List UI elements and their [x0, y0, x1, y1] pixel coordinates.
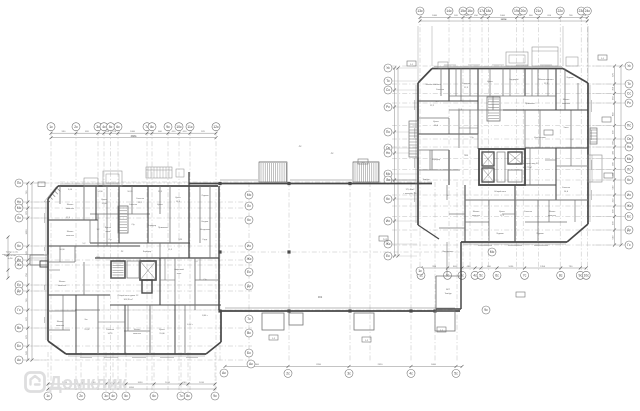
- svg-text:24150: 24150: [501, 19, 508, 21]
- svg-text:8с: 8с: [150, 125, 154, 129]
- svg-text:14,11: 14,11: [107, 333, 113, 335]
- grid: left building vertical axis dashed lines: [51, 131, 216, 390]
- left building window sill lines (outer thin): [46, 184, 205, 356]
- svg-text:1080: 1080: [130, 131, 136, 133]
- svg-text:11с: 11с: [187, 125, 193, 129]
- svg-text:Кухня: Кухня: [487, 81, 493, 83]
- svg-text:Ас: Ас: [17, 358, 21, 362]
- svg-text:С/у: С/у: [109, 239, 112, 241]
- svg-text:Спальня: Спальня: [436, 89, 444, 91]
- connector vent shafts below bottom wall: [262, 311, 455, 331]
- svg-text:9с: 9с: [166, 125, 170, 129]
- svg-text:Лс: Лс: [17, 216, 21, 220]
- svg-text:19с: 19с: [514, 9, 520, 13]
- room labels right building: [403, 77, 574, 295]
- svg-text:2с: 2с: [286, 372, 290, 376]
- svg-text:Пс: Пс: [386, 130, 390, 134]
- left building interior walls: [48, 172, 221, 354]
- dimension column: right of right building: [613, 65, 623, 247]
- svg-text:8с: 8с: [559, 273, 563, 277]
- svg-text:Жс: Жс: [17, 263, 22, 267]
- svg-text:12с: 12с: [213, 125, 219, 129]
- left building top-left ramp hatch: [44, 187, 60, 202]
- right building external stair at right: [590, 128, 597, 144]
- svg-text:Гард.: Гард.: [203, 239, 208, 241]
- right building outer wall: [418, 69, 588, 310]
- svg-text:3с: 3с: [96, 125, 100, 129]
- svg-text:Ус: Ус: [386, 66, 390, 70]
- svg-text:3с: 3с: [347, 372, 351, 376]
- svg-text:Гс: Гс: [627, 243, 631, 247]
- svg-text:Прихожая: Прихожая: [158, 227, 168, 229]
- svg-text:Спальня: Спальня: [106, 329, 114, 331]
- grid: right building horizontal axis dashed lines: [392, 66, 624, 245]
- svg-text:Дс: Дс: [17, 289, 21, 293]
- svg-text:Бс: Бс: [247, 351, 251, 355]
- svg-text:Жилая комната: Жилая комната: [425, 84, 441, 86]
- svg-text:5с: 5с: [124, 394, 128, 398]
- right building outer sill lines: [416, 67, 590, 245]
- svg-text:Мс: Мс: [490, 250, 495, 254]
- grid: left building horizontal axis dashed lines: [24, 183, 252, 360]
- svg-text:Нс: Нс: [17, 200, 21, 204]
- svg-text:Тс: Тс: [386, 79, 390, 83]
- svg-text:Тамбур: Тамбур: [444, 293, 452, 295]
- connector top wall: [189, 180, 432, 184]
- svg-text:4с: 4с: [111, 394, 115, 398]
- room labels left building: [56, 189, 210, 335]
- svg-text:Жс: Жс: [627, 204, 632, 208]
- svg-text:Кухня: Кухня: [101, 199, 106, 201]
- svg-text:6,98 г: 6,98 г: [187, 324, 193, 326]
- svg-text:Кухня: Кухня: [157, 204, 163, 206]
- dimension row: top of left building: [50, 131, 218, 139]
- svg-text:6с: 6с: [116, 125, 120, 129]
- connector stair block A on top edge: [259, 162, 287, 182]
- svg-text:Жилая: Жилая: [134, 329, 141, 331]
- svg-text:Ас: Ас: [249, 362, 253, 366]
- axis bubble: free Ас lower: [247, 360, 255, 368]
- svg-text:холл: холл: [177, 273, 182, 275]
- axis bubbles: row below right building: [417, 271, 590, 279]
- svg-text:1с: 1с: [46, 394, 50, 398]
- svg-text:Лоджия: Лоджия: [496, 233, 503, 235]
- right building elevator/stair core: [479, 149, 525, 185]
- svg-text:Жилая: Жилая: [67, 204, 74, 206]
- left building window marks: [45, 213, 199, 358]
- svg-text:Кухня: Кухня: [159, 329, 165, 331]
- svg-text:1350: 1350: [540, 266, 546, 268]
- svg-text:Лс: Лс: [627, 168, 631, 172]
- svg-text:8,66 г: 8,66 г: [202, 315, 208, 317]
- svg-text:с авакуац. ПБ: с авакуац. ПБ: [403, 193, 417, 195]
- svg-text:Жилая: Жилая: [67, 231, 74, 233]
- svg-text:15,06: 15,06: [159, 333, 165, 335]
- svg-text:16с: 16с: [467, 9, 473, 13]
- svg-text:Домклик: Домклик: [49, 373, 128, 393]
- svg-text:2320: 2320: [378, 364, 384, 366]
- dimension column: left of right building: [393, 67, 400, 258]
- svg-text:Общий холл дома 1С: Общий холл дома 1С: [118, 294, 139, 297]
- svg-text:Тамбур на отм.: Тамбур на отм.: [6, 252, 19, 254]
- svg-text:2кк: 2кк: [85, 319, 88, 321]
- svg-text:Тс: Тс: [627, 82, 631, 86]
- connector stair block B on top edge: [353, 162, 379, 182]
- svg-text:Кухня стол-приг. мод 3С: Кухня стол-приг. мод 3С: [515, 163, 539, 165]
- svg-text:1050: 1050: [26, 229, 28, 235]
- svg-text:109,35 м²: 109,35 м²: [123, 298, 132, 301]
- svg-text:20850: 20850: [130, 136, 137, 138]
- svg-text:2с: 2с: [446, 273, 450, 277]
- svg-text:20с: 20с: [520, 9, 526, 13]
- svg-text:Жилая: Жилая: [59, 281, 66, 283]
- svg-text:Тамбур на отм.: Тамбур на отм.: [4, 255, 17, 257]
- svg-text:13с: 13с: [417, 9, 423, 13]
- axis bubbles: right column of right building: [592, 62, 633, 249]
- svg-text:Дс: Дс: [627, 228, 631, 232]
- axis bubbles: left column of left building: [15, 179, 46, 364]
- svg-text:12,06: 12,06: [101, 203, 107, 205]
- svg-text:9с: 9с: [579, 273, 583, 277]
- svg-text:Кладов.: Кладов.: [201, 221, 209, 223]
- svg-text:Ас: Ас: [222, 371, 226, 375]
- svg-text:7с: 7с: [179, 394, 183, 398]
- svg-text:Пс: Пс: [627, 124, 631, 128]
- svg-text:ниша: ниша: [105, 231, 111, 233]
- svg-text:Кс: Кс: [247, 218, 251, 222]
- svg-text:Холл: Холл: [564, 127, 570, 129]
- svg-text:Ис: Ис: [386, 219, 390, 223]
- right building external stair on left side: [409, 121, 418, 157]
- svg-text:1010: 1010: [165, 382, 171, 384]
- svg-text:Нс: Нс: [386, 151, 390, 155]
- svg-text:6260: 6260: [129, 387, 135, 389]
- svg-text:14с: 14с: [446, 9, 452, 13]
- dimension row: below right building: [420, 266, 588, 270]
- svg-text:Лс: Лс: [247, 204, 251, 208]
- svg-text:4с: 4с: [102, 125, 106, 129]
- axis bubble: corner Ас near left building: [220, 369, 228, 377]
- svg-text:7с: 7с: [523, 273, 527, 277]
- svg-text:5с: 5с: [454, 372, 458, 376]
- svg-text:1680: 1680: [431, 364, 437, 366]
- svg-text:4с: 4с: [473, 273, 477, 277]
- svg-text:1060: 1060: [500, 15, 506, 17]
- dimension column: far left tambour dims: [2, 236, 44, 280]
- right building right-edge balcony band: [588, 155, 602, 182]
- svg-text:302: 302: [318, 295, 323, 299]
- svg-text:4с: 4с: [409, 372, 413, 376]
- dimension row: bottom of left building: [47, 382, 217, 391]
- svg-text:Тамбур: Тамбур: [422, 179, 430, 181]
- svg-text:Жс: Жс: [386, 242, 391, 246]
- section marker boxes on connector: [269, 236, 446, 342]
- svg-text:Ис: Ис: [627, 193, 631, 197]
- svg-text:Бс: Бс: [17, 344, 21, 348]
- svg-text:Жилая: Жилая: [57, 321, 64, 323]
- axis bubbles: bottom row of left building: [44, 392, 219, 400]
- left building balconies on top edge: [84, 167, 184, 186]
- svg-text:Кухня: Кухня: [433, 121, 439, 123]
- svg-text:Жилая: Жилая: [549, 211, 556, 213]
- axis bubble: free node near right building left wall: [416, 267, 424, 275]
- axis bubbles: bottom row of connector: [284, 369, 460, 377]
- left building entrance tambour protrusion: [4, 255, 48, 267]
- svg-text:Жилая: Жилая: [473, 211, 480, 213]
- axis bubbles: top row of right building: [416, 7, 591, 15]
- svg-text:6с: 6с: [495, 273, 499, 277]
- svg-text:Рс: Рс: [627, 101, 631, 105]
- svg-text:Лоджия: Лоджия: [201, 195, 208, 197]
- svg-text:Ус: Ус: [627, 64, 631, 68]
- left building extra partitions: [48, 186, 219, 354]
- svg-text:Ес: Ес: [17, 283, 21, 287]
- svg-text:Жс: Жс: [247, 257, 252, 261]
- svg-text:1с: 1с: [418, 269, 422, 273]
- svg-text:комната: комната: [66, 235, 75, 237]
- right building extra partitions: [418, 69, 588, 277]
- svg-text:Кухня-ниша: Кухня-ниша: [534, 137, 546, 139]
- svg-text:комната: комната: [66, 208, 75, 210]
- svg-text:-0,450: -0,450: [7, 258, 12, 260]
- svg-text:Мс: Мс: [17, 206, 22, 210]
- svg-text:3с: 3с: [104, 394, 108, 398]
- svg-text:ПУИ: ПУИ: [96, 257, 101, 259]
- axis bubble: free 9с mid connector: [482, 306, 490, 314]
- svg-text:Коридор: Коридор: [148, 225, 157, 227]
- svg-text:16,20: 16,20: [127, 191, 133, 193]
- svg-text:1050: 1050: [138, 382, 144, 384]
- svg-text:1080: 1080: [432, 15, 438, 17]
- svg-text:1с: 1с: [49, 125, 53, 129]
- svg-text:22с: 22с: [557, 9, 563, 13]
- svg-text:Дс: Дс: [247, 284, 251, 288]
- svg-text:Рс: Рс: [386, 105, 390, 109]
- svg-text:Спальня: Спальня: [462, 83, 470, 85]
- grid: right building vertical axis dashed lines: [420, 17, 587, 271]
- connector columns (dark squares): [218, 182, 436, 313]
- svg-text:Гардероб: Гардероб: [509, 79, 519, 81]
- axis bubble: free Вс lower: [245, 329, 253, 337]
- axis bubbles: left column of right building: [384, 64, 417, 260]
- svg-text:Ис: Ис: [247, 244, 251, 248]
- right building window marks: [415, 65, 592, 246]
- svg-text:21с: 21с: [536, 9, 542, 13]
- watermark logo (rounded square with house): [26, 373, 45, 392]
- svg-text:7с: 7с: [247, 317, 251, 321]
- misc small texts near top connector: [299, 101, 440, 164]
- svg-text:Мс: Мс: [627, 157, 632, 161]
- grid: connector dashed lines: [48, 182, 460, 392]
- svg-text:Ес: Ес: [627, 215, 631, 219]
- svg-text:2280: 2280: [316, 364, 322, 366]
- right building witness lines to top dim row: [418, 26, 588, 81]
- svg-text:Ос: Ос: [627, 137, 632, 141]
- svg-text:Пс: Пс: [17, 181, 21, 185]
- svg-text:Сс: Сс: [386, 88, 390, 92]
- svg-text:ПУИ: ПУИ: [178, 239, 183, 241]
- svg-text:2с: 2с: [79, 394, 83, 398]
- right building interior walls: [418, 69, 588, 243]
- svg-text:Кухня-: Кухня-: [105, 227, 112, 229]
- svg-text:Кс: Кс: [386, 197, 390, 201]
- svg-text:Мс: Мс: [247, 193, 252, 197]
- svg-text:Кладовая: Кладовая: [200, 229, 209, 231]
- axis bubbles: top row of left building: [47, 123, 220, 131]
- svg-text:Спальня: Спальня: [562, 187, 570, 189]
- svg-text:15с: 15с: [460, 9, 466, 13]
- svg-text:24с: 24с: [585, 9, 591, 13]
- svg-text:Спальня: Спальня: [524, 211, 532, 213]
- svg-text:Вс: Вс: [247, 331, 251, 335]
- svg-text:1010: 1010: [199, 382, 205, 384]
- svg-text:Кс: Кс: [627, 178, 631, 182]
- svg-text:Ес: Ес: [247, 270, 251, 274]
- right building staircase treads: [487, 97, 500, 121]
- right building balconies above top wall: [438, 47, 578, 68]
- dimension row: top of right building: [419, 15, 589, 22]
- left building extra room texts: [66, 195, 209, 253]
- svg-text:148,77 м²: 148,77 м²: [522, 166, 531, 169]
- svg-text:Вестибюль: Вестибюль: [443, 251, 454, 253]
- svg-text:9с: 9с: [213, 394, 217, 398]
- svg-text:14,96: 14,96: [97, 191, 103, 193]
- svg-text:комната: комната: [58, 285, 67, 287]
- svg-text:16,96: 16,96: [59, 249, 65, 251]
- svg-text:9с: 9с: [484, 308, 488, 312]
- svg-text:5с: 5с: [479, 273, 483, 277]
- left building outer wall: [48, 186, 221, 354]
- svg-text:Жилая комната: Жилая комната: [538, 79, 554, 81]
- svg-text:ПУИ: ПУИ: [464, 155, 469, 157]
- svg-text:ЗП, 40м2: ЗП, 40м2: [406, 189, 416, 191]
- svg-text:18с: 18с: [486, 9, 492, 13]
- dimension row: bottom of connector: [224, 364, 464, 368]
- svg-text:15,02: 15,02: [84, 329, 90, 331]
- svg-text:2с: 2с: [74, 125, 78, 129]
- small marker box at left building top-left: [38, 182, 45, 187]
- svg-text:комната: комната: [133, 333, 142, 335]
- axis bubble: free node right of connector stair: [488, 248, 496, 256]
- svg-text:Общий холл: Общий холл: [494, 190, 507, 193]
- svg-text:Жилая: Жилая: [563, 99, 570, 101]
- svg-text:Лифтовой: Лифтовой: [174, 268, 185, 271]
- svg-text:6с: 6с: [152, 394, 156, 398]
- svg-text:8с: 8с: [186, 394, 190, 398]
- axis bubble: free 7с connector left: [245, 315, 253, 323]
- svg-text:10с: 10с: [583, 273, 589, 277]
- svg-text:Сс: Сс: [627, 92, 631, 96]
- dimension column: left of left building: [26, 182, 34, 362]
- svg-text:Лоджия: Лоджия: [566, 77, 573, 79]
- svg-text:Прихожая: Прихожая: [525, 103, 535, 105]
- svg-text:комната: комната: [56, 325, 65, 327]
- svg-text:5с: 5с: [109, 125, 113, 129]
- svg-text:Спальня: Спальня: [129, 204, 137, 206]
- svg-text:Кухня: Кухня: [175, 197, 180, 199]
- svg-text:Кс: Кс: [17, 244, 21, 248]
- right building small section boxes: [407, 55, 613, 297]
- svg-text:Кухня: Кухня: [499, 211, 505, 213]
- svg-text:комната: комната: [548, 215, 557, 217]
- svg-text:Лоджия: Лоджия: [536, 233, 543, 235]
- axis bubble: free Бс lower: [245, 349, 253, 357]
- svg-text:Мс: Мс: [386, 172, 391, 176]
- svg-text:Спальня: Спальня: [136, 198, 144, 200]
- svg-text:Вс: Вс: [17, 326, 21, 330]
- svg-text:Гс: Гс: [17, 308, 21, 312]
- svg-text:1030: 1030: [508, 266, 514, 268]
- left building stair core (dark block): [111, 206, 156, 293]
- svg-text:Коридор: Коридор: [432, 159, 441, 161]
- svg-text:комната: комната: [562, 103, 571, 105]
- svg-text:Ес: Ес: [386, 254, 390, 258]
- svg-text:Нс: Нс: [627, 145, 631, 149]
- svg-text:Коридор: Коридор: [143, 251, 152, 253]
- axis bubbles: column right of left building x=249: [245, 191, 253, 290]
- connector bottom wall: [221, 308, 460, 311]
- svg-text:10с: 10с: [176, 125, 182, 129]
- svg-text:комната: комната: [472, 215, 481, 217]
